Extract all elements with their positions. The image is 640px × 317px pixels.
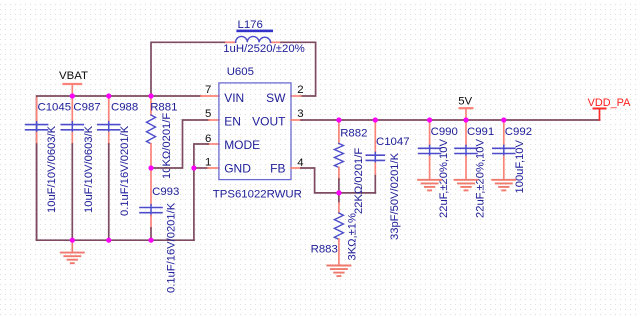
ground (C991) [455,179,478,181]
capacitor C992 [503,120,505,146]
svg-text:L176: L176 [238,19,263,31]
ground (C990) [418,179,441,181]
svg-text:FB: FB [270,162,285,176]
svg-text:1: 1 [205,156,211,168]
capacitor C990 [429,120,431,146]
resistor R881 [150,96,152,115]
resistor R882 [338,120,340,144]
svg-text:0.1uF/16V/0201/K: 0.1uF/16V/0201/K [119,125,131,216]
svg-text:2: 2 [297,84,303,96]
capacitor C987 [71,96,73,122]
inductor L176 [236,36,271,42]
svg-text:33pF/50V/0201/K: 33pF/50V/0201/K [389,152,401,240]
svg-text:C990: C990 [431,126,458,138]
svg-text:100uF,10V: 100uF,10V [514,139,526,193]
svg-text:C1047: C1047 [376,136,410,148]
capacitor C988 [108,96,110,122]
svg-text:SW: SW [266,91,286,105]
svg-text:TPS61022RWUR: TPS61022RWUR [213,188,302,200]
svg-text:C988: C988 [111,101,138,113]
ground (R883) [327,265,350,267]
svg-text:VDD_PA: VDD_PA [588,97,632,109]
svg-text:C992: C992 [505,126,532,138]
power symbol 5V [465,108,467,120]
ground (left rail) [71,240,73,252]
svg-text:3: 3 [297,108,303,120]
wire MODE/GND node [208,143,219,145]
svg-text:VOUT: VOUT [252,114,286,128]
svg-text:C1045: C1045 [38,101,72,113]
capacitor C991 [465,120,467,146]
svg-text:10uF/10V/0603/K: 10uF/10V/0603/K [83,125,95,213]
svg-text:R881: R881 [150,101,177,113]
wire VBAT rail [37,96,201,240]
svg-text:GND: GND [224,162,251,176]
power symbol VBAT [71,84,73,96]
svg-text:22KΩ/0201/F: 22KΩ/0201/F [353,148,365,214]
resistor R883 [338,193,340,203]
svg-text:U605: U605 [227,66,254,78]
svg-text:10KΩ/0201/F: 10KΩ/0201/F [161,113,173,179]
svg-text:C991: C991 [467,126,494,138]
svg-text:22uF,±20%,10V: 22uF,±20%,10V [438,139,450,218]
svg-text:0.1uF/16V/0201/K: 0.1uF/16V/0201/K [166,202,178,293]
svg-text:C993: C993 [152,186,179,198]
capacitor C993 [150,168,152,205]
wire inductor to SW (right riser) [271,41,281,43]
wire FB node [291,167,301,169]
svg-text:22uF,±20%,10V: 22uF,±20%,10V [475,139,487,218]
capacitor C1047 [374,120,376,152]
svg-text:VIN: VIN [224,91,244,105]
svg-text:7: 7 [205,84,211,96]
svg-text:5: 5 [205,108,211,120]
svg-text:5V: 5V [458,96,472,108]
net label VDD_PA [599,109,601,121]
svg-text:4: 4 [297,157,303,169]
wire VOUT to VDD_PA [291,119,301,121]
svg-text:3KΩ,±1%: 3KΩ,±1% [347,213,359,261]
svg-text:EN: EN [224,114,241,128]
wire EN node [151,120,209,168]
svg-text:VBAT: VBAT [59,70,88,82]
ground (C992) [492,179,515,181]
svg-text:6: 6 [205,133,211,145]
svg-text:R883: R883 [311,243,338,255]
IC U605 box [219,83,291,180]
svg-text:MODE: MODE [224,138,260,152]
svg-text:1uH/2520/±20%: 1uH/2520/±20% [223,43,305,55]
wire VIN node to inductor (left riser) [151,42,226,96]
svg-text:C987: C987 [73,101,100,113]
capacitor C1045 [36,98,38,122]
wire bottom ground rail [37,239,194,241]
svg-text:10uF/10V/0603/K: 10uF/10V/0603/K [46,125,58,213]
svg-text:R882: R882 [340,128,367,140]
